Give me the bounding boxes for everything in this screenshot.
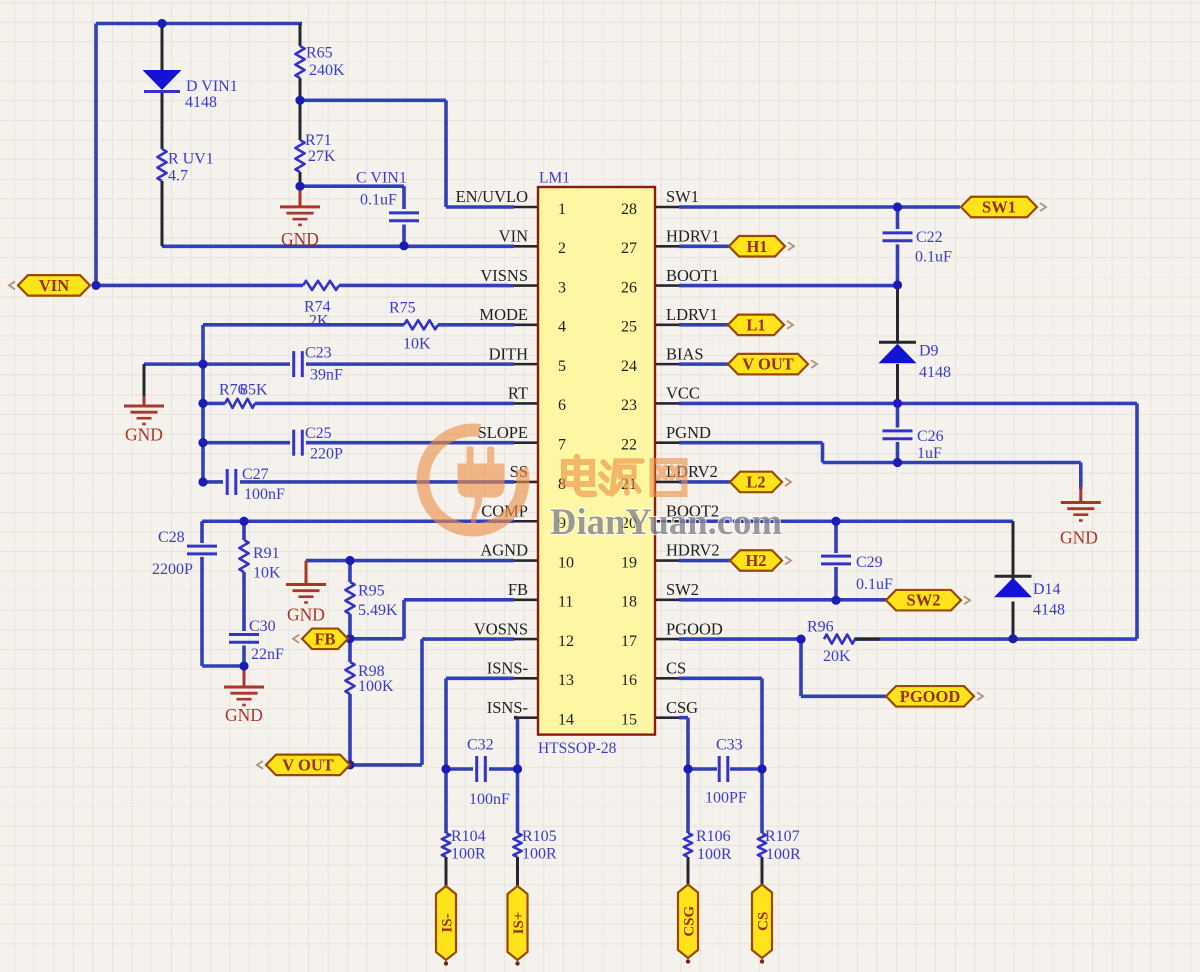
- svg-text:0.1uF: 0.1uF: [856, 576, 893, 593]
- svg-text:R75: R75: [389, 300, 416, 317]
- svg-text:SW2: SW2: [907, 591, 941, 610]
- svg-text:PGOOD: PGOOD: [900, 687, 961, 706]
- svg-text:SW1: SW1: [982, 198, 1016, 217]
- svg-text:H2: H2: [745, 551, 766, 570]
- svg-text:L2: L2: [746, 472, 765, 491]
- svg-text:10K: 10K: [403, 336, 431, 353]
- svg-text:CSG: CSG: [682, 905, 698, 936]
- svg-text:VIN: VIN: [39, 276, 69, 295]
- svg-text:4148: 4148: [1033, 602, 1065, 619]
- svg-text:C28: C28: [158, 529, 185, 546]
- svg-text:2: 2: [558, 240, 566, 257]
- svg-text:C27: C27: [242, 466, 269, 483]
- svg-text:VISNS: VISNS: [480, 266, 528, 285]
- svg-text:18: 18: [621, 594, 637, 611]
- svg-text:V OUT: V OUT: [742, 355, 794, 374]
- svg-text:100nF: 100nF: [469, 791, 510, 808]
- svg-text:R96: R96: [807, 619, 834, 636]
- svg-text:14: 14: [558, 711, 574, 728]
- svg-text:10K: 10K: [253, 565, 281, 582]
- svg-text:CSG: CSG: [666, 698, 698, 717]
- svg-text:GND: GND: [281, 229, 319, 249]
- svg-text:LDRV1: LDRV1: [666, 305, 718, 324]
- svg-text:15: 15: [621, 711, 637, 728]
- svg-text:EN/UVLO: EN/UVLO: [456, 187, 528, 206]
- svg-text:RT: RT: [508, 384, 528, 403]
- svg-text:R104: R104: [451, 828, 486, 845]
- svg-text:L1: L1: [746, 315, 765, 334]
- svg-text:SW1: SW1: [666, 187, 699, 206]
- svg-text:VIN: VIN: [499, 226, 528, 245]
- svg-text:IS+: IS+: [511, 912, 527, 935]
- svg-text:HTSSOP-28: HTSSOP-28: [538, 740, 617, 757]
- svg-text:R UV1: R UV1: [168, 151, 214, 168]
- svg-text:MODE: MODE: [479, 305, 528, 324]
- svg-text:C VIN1: C VIN1: [356, 170, 407, 187]
- svg-text:BOOT1: BOOT1: [666, 266, 719, 285]
- svg-text:85K: 85K: [240, 382, 268, 399]
- svg-text:AGND: AGND: [480, 541, 528, 560]
- svg-text:ISNS-: ISNS-: [487, 659, 528, 678]
- svg-text:240K: 240K: [309, 62, 345, 79]
- svg-text:HDRV1: HDRV1: [666, 226, 720, 245]
- svg-text:0.1uF: 0.1uF: [360, 192, 397, 209]
- svg-text:SLOPE: SLOPE: [478, 423, 528, 442]
- svg-text:D VIN1: D VIN1: [186, 78, 238, 95]
- svg-text:28: 28: [621, 201, 637, 218]
- svg-text:D14: D14: [1033, 581, 1061, 598]
- svg-text:4: 4: [558, 319, 566, 336]
- svg-text:DITH: DITH: [489, 344, 528, 363]
- svg-text:2200P: 2200P: [152, 561, 193, 578]
- svg-text:5.49K: 5.49K: [358, 602, 398, 619]
- svg-text:DianYuan.com: DianYuan.com: [550, 502, 782, 543]
- svg-text:VCC: VCC: [666, 384, 700, 403]
- svg-text:C29: C29: [856, 554, 883, 571]
- svg-text:GND: GND: [287, 605, 325, 625]
- svg-text:R95: R95: [358, 583, 385, 600]
- svg-text:4.7: 4.7: [168, 168, 188, 185]
- svg-text:1uF: 1uF: [917, 445, 942, 462]
- svg-text:27K: 27K: [308, 148, 336, 165]
- svg-text:25: 25: [621, 319, 637, 336]
- svg-text:4148: 4148: [919, 364, 951, 381]
- svg-text:C32: C32: [467, 737, 494, 754]
- svg-text:19: 19: [621, 554, 637, 571]
- svg-text:100R: 100R: [522, 846, 557, 863]
- svg-text:220P: 220P: [310, 446, 343, 463]
- svg-text:R107: R107: [765, 828, 800, 845]
- svg-text:R91: R91: [253, 545, 280, 562]
- svg-text:CS: CS: [756, 912, 772, 931]
- svg-text:GND: GND: [1060, 528, 1098, 548]
- svg-text:R106: R106: [696, 828, 731, 845]
- svg-text:PGND: PGND: [666, 423, 711, 442]
- svg-text:7: 7: [558, 436, 566, 453]
- svg-text:100K: 100K: [358, 678, 394, 695]
- svg-text:22: 22: [621, 436, 637, 453]
- svg-text:0.1uF: 0.1uF: [915, 249, 952, 266]
- svg-text:GND: GND: [225, 705, 263, 725]
- svg-text:C22: C22: [916, 229, 943, 246]
- svg-text:2K: 2K: [309, 313, 329, 330]
- svg-text:22nF: 22nF: [251, 646, 284, 663]
- svg-text:23: 23: [621, 397, 637, 414]
- svg-text:C33: C33: [716, 737, 743, 754]
- svg-text:17: 17: [621, 633, 637, 650]
- svg-text:4148: 4148: [185, 94, 217, 111]
- svg-text:39nF: 39nF: [310, 367, 343, 384]
- svg-text:BIAS: BIAS: [666, 344, 704, 363]
- svg-text:20K: 20K: [823, 648, 851, 665]
- svg-text:C23: C23: [305, 345, 332, 362]
- svg-text:16: 16: [621, 672, 637, 689]
- svg-text:FB: FB: [314, 629, 335, 648]
- svg-text:LM1: LM1: [539, 170, 570, 187]
- svg-text:13: 13: [558, 672, 574, 689]
- svg-text:GND: GND: [125, 425, 163, 445]
- svg-text:PGOOD: PGOOD: [666, 619, 723, 638]
- svg-text:R65: R65: [306, 45, 333, 62]
- svg-text:100R: 100R: [766, 846, 801, 863]
- svg-text:6: 6: [558, 397, 566, 414]
- svg-text:ISNS-: ISNS-: [487, 698, 528, 717]
- svg-text:H1: H1: [746, 237, 767, 256]
- svg-text:HDRV2: HDRV2: [666, 541, 720, 560]
- svg-text:SW2: SW2: [666, 580, 699, 599]
- svg-text:3: 3: [558, 279, 566, 296]
- svg-text:5: 5: [558, 358, 566, 375]
- svg-text:27: 27: [621, 240, 637, 257]
- svg-text:C25: C25: [305, 425, 332, 442]
- svg-text:FB: FB: [508, 580, 528, 599]
- svg-text:CS: CS: [666, 659, 686, 678]
- svg-text:24: 24: [621, 358, 637, 375]
- svg-text:100R: 100R: [697, 846, 732, 863]
- svg-text:R71: R71: [305, 132, 332, 149]
- svg-text:26: 26: [621, 279, 637, 296]
- svg-text:C30: C30: [249, 618, 276, 635]
- svg-text:VOSNS: VOSNS: [474, 619, 528, 638]
- svg-text:100nF: 100nF: [244, 486, 285, 503]
- svg-text:IS-: IS-: [440, 913, 456, 932]
- svg-text:C26: C26: [917, 428, 944, 445]
- svg-text:12: 12: [558, 633, 574, 650]
- svg-text:V OUT: V OUT: [282, 755, 334, 774]
- svg-text:100R: 100R: [451, 846, 486, 863]
- svg-text:R105: R105: [522, 828, 557, 845]
- svg-text:D9: D9: [919, 343, 939, 360]
- svg-text:100PF: 100PF: [705, 790, 747, 807]
- svg-text:11: 11: [558, 594, 573, 611]
- svg-text:10: 10: [558, 554, 574, 571]
- svg-text:1: 1: [558, 201, 566, 218]
